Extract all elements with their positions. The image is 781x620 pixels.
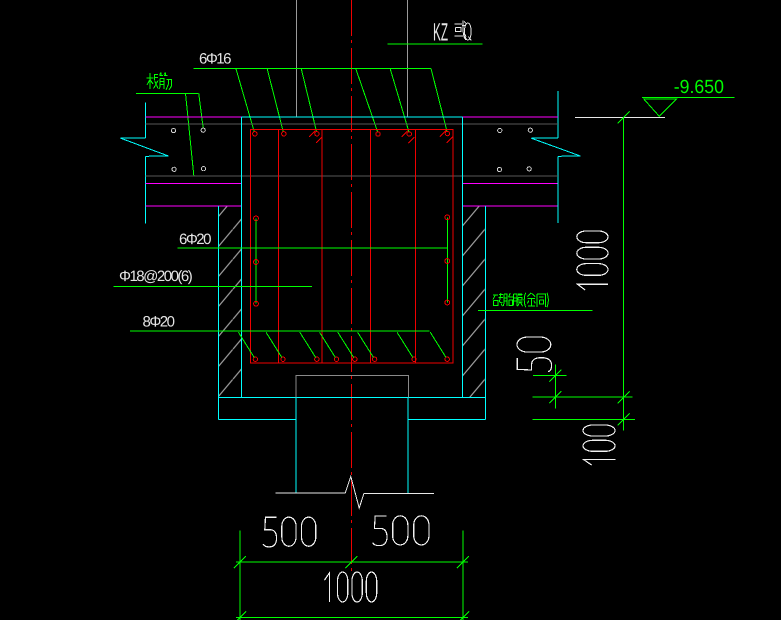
pedestal right edge (cyan) [407,397,409,493]
slab bottom rebar line (gray) [146,175,559,177]
hook slashes at top bar 3 [309,131,322,143]
column KZ left edge [296,0,298,117]
vertical dimension line 1000 (green) [623,117,625,430]
side dowel bar left (green) [255,218,257,303]
svg-text:6Φ20: 6Φ20 [179,231,211,248]
side dowel dots right (red) [445,215,450,305]
svg-text:-9.650: -9.650 [674,77,724,98]
dimension text 50 (vertical) [517,337,552,372]
leader line 6Φ20 [178,247,448,249]
dimension text 500 left [263,517,316,547]
svg-text:KZ: KZ [433,18,448,46]
svg-text:8Φ20: 8Φ20 [143,314,175,331]
footing bottom edge left (cyan) [218,418,296,420]
foundation cup right wall (cyan) [461,117,463,397]
bottom bar hooks (green) [238,332,446,357]
hook slashes at top bar 6 [440,130,453,142]
pedestal left edge (cyan) [295,397,297,493]
pier seat outline (gray) [296,375,408,397]
extension line footing interior (green) [533,396,633,398]
dimension line 50 (green vertical) [554,364,556,408]
bottom extension line right (green) [462,531,464,620]
centerline (red dash-dot axis) [350,0,352,572]
slab bottom line left (magenta) [146,182,242,184]
brick form hatch right [463,206,485,397]
brick form hatch left [219,206,241,397]
svg-text:6Φ16: 6Φ16 [199,50,231,67]
svg-text:Φ18@200(6): Φ18@200(6) [119,268,193,285]
slab top rebar line (gray) [146,123,559,125]
label 砖胎膜(余同) (green) [493,293,549,307]
bottom rebar dots (red) [253,357,449,361]
beam soffit line left (magenta) [146,205,242,207]
dimension text 1000 (vertical) [577,231,608,290]
rebar cage bar 3 [321,129,323,363]
dimension ticks (green) [549,111,629,425]
label 板筋 (green) [147,73,172,91]
column KZ right edge [406,0,408,117]
rebar cage bar 5 [415,129,417,363]
rebar cage bar 4 [370,129,372,363]
dimension line 500/500 (green) [236,561,468,563]
foundation cup left wall (cyan) [241,117,243,397]
slab section rebar dots right [497,128,532,172]
foundation cup top edge (cyan) [242,116,463,118]
level symbol -9.650 line [642,97,735,99]
side dowel dots left (red) [254,216,259,306]
bottom extension line left (green) [239,531,241,620]
slab section rebar dots left [171,128,205,171]
extension line footing bottom (green) [533,419,636,421]
slab bottom line right (magenta) [462,182,557,184]
leader line 6Φ16 [194,68,431,70]
brick form outer wall left (cyan) [217,206,219,419]
right slab break line (cyan) [531,91,580,223]
top rebar dots (red) [253,131,450,136]
slab top line left (magenta) [146,116,242,118]
side dowel bar right (green) [446,217,448,302]
dimension line 1000 bottom (green) [236,617,468,619]
dimension text 1000 bottom [325,572,377,602]
leader line 8Φ20 [130,330,429,332]
top extension line (white) [575,116,665,118]
leader line Φ18@200(6) [114,285,313,287]
extension line cup seat (green) [533,375,567,377]
level symbol triangle [644,99,677,116]
label KZ或Q [433,18,471,46]
dimension text 100 (vertical) [583,425,615,465]
dimension text 500 right [373,516,429,546]
leader line 砖胎膜 [478,310,593,312]
beam soffit line right (magenta) [462,205,557,207]
bottom dimension ticks (green) [234,556,469,620]
footing bottom edge right (cyan) [408,418,485,420]
hook slashes at top bar 5 [402,131,415,143]
leader line 板筋 [136,92,199,94]
left slab break line (cyan) [120,103,168,224]
pedestal break line (white) [276,477,435,509]
leader hooks 板筋 into slab [186,93,204,175]
rebar cage outline (red) [251,129,453,363]
footing interior bottom line (cyan) [218,396,485,398]
leader line under KZ label [388,43,483,45]
rebar cage bar 2 [277,129,279,363]
slab top line right (magenta) [462,116,558,118]
brick form outer wall right (cyan) [484,206,486,419]
leader hooks 6Φ16 to top bars [236,69,447,132]
